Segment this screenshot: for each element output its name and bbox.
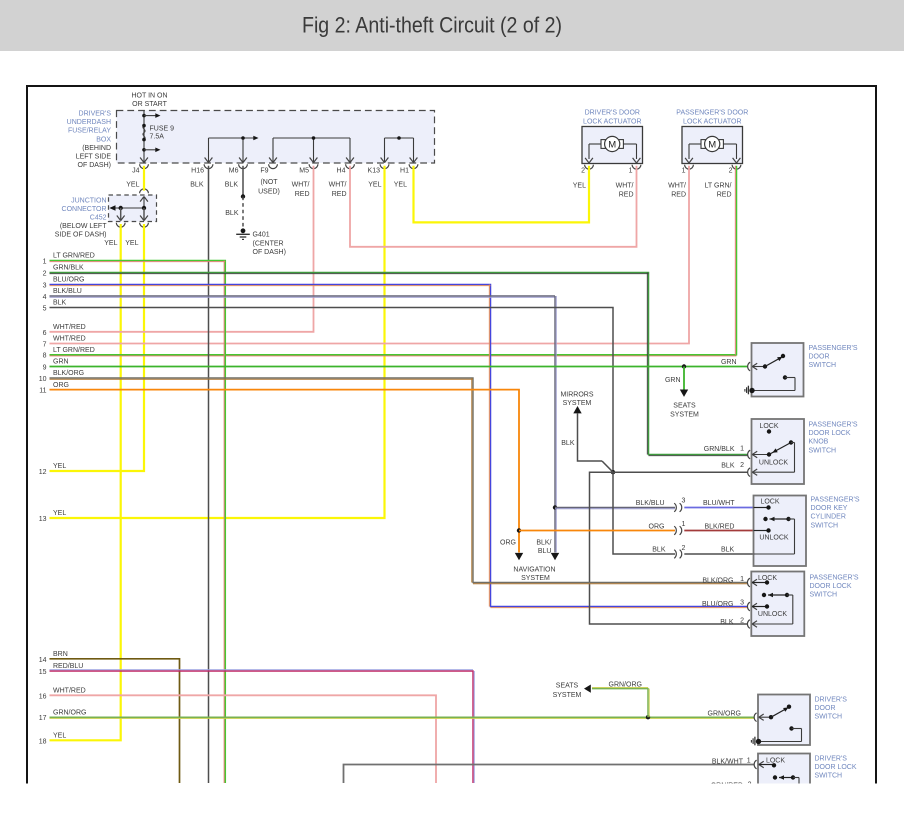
row 14 number and label BRN <box>39 651 68 664</box>
fuse box pin F9 connector <box>260 158 277 175</box>
svg-text:RED: RED <box>717 192 732 199</box>
wire WHT/RED M5 to row 6 <box>50 166 314 332</box>
svg-text:FUSE 9: FUSE 9 <box>150 126 175 133</box>
wire YEL K13 to row 13 <box>50 166 385 518</box>
svg-text:DOOR: DOOR <box>815 705 836 712</box>
svg-text:BLK: BLK <box>225 210 239 217</box>
svg-text:DRIVER'S: DRIVER'S <box>815 755 848 762</box>
svg-text:BLK: BLK <box>721 547 735 554</box>
svg-text:BLU: BLU <box>538 548 552 555</box>
BLK/BLU pin 3 labels <box>636 500 736 507</box>
pin H16 wire label BLK <box>190 182 204 189</box>
svg-text:BLK/: BLK/ <box>536 540 551 547</box>
passenger's door switch label <box>809 345 858 369</box>
BLU/ORG pin 3 label <box>702 600 744 609</box>
svg-text:OF DASH): OF DASH) <box>78 162 111 169</box>
svg-text:WHT/RED: WHT/RED <box>53 324 86 331</box>
fuse/relay box label <box>67 111 112 170</box>
pin F9 label (NOT USED) <box>258 179 280 196</box>
svg-text:WHT/: WHT/ <box>668 183 686 190</box>
wire BLK from M6 <box>242 166 244 197</box>
fuse box pin K13 connector <box>368 158 389 175</box>
svg-text:WHT/RED: WHT/RED <box>53 688 86 695</box>
driver actuator pin 1 connector <box>629 158 641 175</box>
driver's door lock switch box <box>758 754 810 813</box>
svg-text:FUSE/RELAY: FUSE/RELAY <box>68 128 111 135</box>
row 16 number and label WHT/RED <box>39 688 86 701</box>
svg-text:BLK/ORG: BLK/ORG <box>702 577 733 584</box>
driver lock switch label <box>815 755 857 779</box>
svg-text:(BELOW LEFT: (BELOW LEFT <box>60 223 107 230</box>
svg-text:LT GRN/: LT GRN/ <box>705 183 732 190</box>
junction connector C452 (dashed) <box>109 195 157 222</box>
mirrors system label <box>560 392 593 408</box>
svg-text:WHT/: WHT/ <box>616 183 634 190</box>
GRN/ORG pin label <box>708 711 741 718</box>
svg-text:GRN: GRN <box>53 359 69 366</box>
knob switch label <box>809 422 858 455</box>
row 9 number and label GRN <box>43 359 69 372</box>
svg-text:1: 1 <box>747 758 751 765</box>
key cylinder LOCK label <box>760 498 779 505</box>
svg-text:H1: H1 <box>400 168 409 175</box>
driver actuator internal wires <box>589 144 637 159</box>
svg-text:1: 1 <box>629 168 633 175</box>
junction dot BLK/BLU <box>553 505 557 509</box>
svg-text:1: 1 <box>740 576 744 583</box>
driver door switch contacts <box>759 705 802 742</box>
svg-text:CONNECTOR: CONNECTOR <box>62 206 107 213</box>
G401 label <box>253 232 286 257</box>
passenger's door lock knob switch box <box>752 419 805 484</box>
BLK/BLU label navigation branch <box>536 540 551 556</box>
driver lock switch LOCK contact <box>759 763 776 767</box>
svg-text:M5: M5 <box>299 168 309 175</box>
pin M6 wire label BLK <box>225 182 239 189</box>
svg-text:SWITCH: SWITCH <box>815 773 843 780</box>
svg-text:SEATS: SEATS <box>673 403 696 410</box>
ORG pin 1 labels <box>649 524 735 531</box>
svg-text:G401: G401 <box>253 232 270 239</box>
svg-text:2: 2 <box>729 168 733 175</box>
wire BLK H16 down <box>208 166 210 783</box>
svg-text:4: 4 <box>43 294 47 301</box>
fuse box pin H16 connector <box>191 158 213 175</box>
row 11 number and label ORG <box>39 382 69 395</box>
driver's door box <box>582 127 643 164</box>
svg-text:7: 7 <box>43 342 47 349</box>
C452 bottom connector left <box>116 216 125 228</box>
svg-text:J4: J4 <box>132 168 140 175</box>
svg-text:SYSTEM: SYSTEM <box>563 400 592 407</box>
knob switch UNLOCK label <box>759 460 789 467</box>
wire BLK/RED inline connector to key cylinder switch <box>684 530 753 532</box>
svg-text:GRN/ORG: GRN/ORG <box>708 711 741 718</box>
svg-text:ORG: ORG <box>53 382 69 389</box>
internal bus F9-M5-H4 <box>273 136 350 162</box>
svg-text:RED: RED <box>295 191 310 198</box>
inline connector pin 2 <box>674 545 685 558</box>
branch arrow right (bottom) <box>144 148 161 153</box>
svg-text:SWITCH: SWITCH <box>809 447 837 454</box>
driver door switch case ground <box>751 737 761 746</box>
wire LT GRN/RED row 8 to passenger actuator pin 2 <box>50 166 737 356</box>
driver lock switch pin 1 connector <box>754 760 764 769</box>
row 15 number and label RED/BLU <box>39 663 84 676</box>
wire GRN/BLK row 2 to knob switch pin 1 <box>50 273 748 456</box>
svg-text:LEFT SIDE: LEFT SIDE <box>76 154 112 161</box>
svg-text:YEL: YEL <box>573 183 586 190</box>
BLK/WHT pin 1 label <box>712 758 751 766</box>
svg-text:(BEHIND: (BEHIND <box>82 145 111 152</box>
wire WHT/RED row 7 to passenger actuator pin 1 <box>50 166 690 344</box>
arrow GRN to seats system <box>680 390 688 397</box>
svg-text:13: 13 <box>39 516 47 523</box>
svg-text:RED: RED <box>619 192 634 199</box>
svg-text:UNLOCK: UNLOCK <box>759 535 789 542</box>
fuse box pin H1 connector <box>400 158 418 175</box>
row 8 number and label LT GRN/RED <box>43 347 95 360</box>
passenger actuator wire labels <box>668 183 731 199</box>
inline connector pin 3 <box>674 498 685 512</box>
wire BLK/ORG row 10 to passenger lock switch pin 1 <box>50 378 748 584</box>
svg-text:YEL: YEL <box>368 182 381 189</box>
driver actuator pin 2 connector <box>581 158 593 175</box>
seats system label (driver) <box>553 683 582 700</box>
title bar <box>0 0 904 51</box>
svg-text:BLK: BLK <box>190 182 204 189</box>
svg-text:GRN: GRN <box>721 359 737 366</box>
row 5 number and label BLK <box>43 300 67 313</box>
svg-text:BLK: BLK <box>720 619 734 626</box>
svg-text:BOX: BOX <box>96 136 111 143</box>
svg-text:GRN/BLK: GRN/BLK <box>53 265 84 272</box>
svg-text:ORG: ORG <box>500 540 516 547</box>
svg-text:USED): USED) <box>258 189 280 196</box>
svg-text:15: 15 <box>39 669 47 676</box>
wire BLK/WHT from below to driver's door lock switch <box>344 765 755 784</box>
passenger lock switch label <box>810 575 859 599</box>
wire BLK junction down to key cylinder pin 2 <box>613 472 675 554</box>
row 7 number and label WHT/RED <box>43 336 86 349</box>
fuse F9 feed line J4 <box>143 111 145 163</box>
row 4 number and label BLK/BLU <box>43 288 82 301</box>
passenger's door label <box>676 110 748 126</box>
svg-text:SWITCH: SWITCH <box>811 522 839 529</box>
svg-text:11: 11 <box>39 388 46 395</box>
svg-text:UNDERDASH: UNDERDASH <box>67 119 111 126</box>
svg-text:SYSTEM: SYSTEM <box>553 692 582 699</box>
driver actuator wire labels <box>573 183 634 199</box>
svg-text:YEL: YEL <box>53 463 66 470</box>
driver lock switch moving contact <box>773 775 799 783</box>
arrow up to mirrors system <box>573 406 581 413</box>
svg-text:7.5A: 7.5A <box>150 133 165 140</box>
svg-text:GRN/ORG: GRN/ORG <box>609 682 642 689</box>
svg-text:DRIVER'S: DRIVER'S <box>79 111 112 118</box>
svg-text:RED/BLU: RED/BLU <box>53 663 83 670</box>
svg-text:PASSENGER'S: PASSENGER'S <box>809 422 858 429</box>
wire LT GRN/RED row 1 down <box>50 261 226 784</box>
lock switch LOCK label <box>758 575 777 582</box>
key cylinder LOCK contact <box>754 505 771 509</box>
wire YEL H1 to driver actuator pin 2 <box>414 166 590 223</box>
svg-text:WHT/RED: WHT/RED <box>53 336 86 343</box>
wire BLK row 5 to junction <box>50 308 614 473</box>
svg-text:SIDE OF DASH): SIDE OF DASH) <box>55 232 107 239</box>
svg-text:2: 2 <box>43 271 47 278</box>
C452 label <box>55 197 107 238</box>
svg-text:6: 6 <box>43 330 47 337</box>
knob switch pin 2 connector <box>748 468 758 477</box>
wire YEL C452 right to row 12 <box>50 224 145 471</box>
svg-text:GRN/RED: GRN/RED <box>711 783 743 790</box>
fuse 9 label <box>150 126 175 141</box>
svg-text:BLU/WHT: BLU/WHT <box>703 500 735 507</box>
pin K13 wire label YEL <box>368 182 381 189</box>
row 3 number and label BLU/ORG <box>43 277 85 290</box>
wire GRN/ORG row 17 to driver's door switch <box>50 717 755 718</box>
passenger's door switch box <box>752 343 804 397</box>
svg-text:SYSTEM: SYSTEM <box>521 575 550 582</box>
svg-text:1: 1 <box>682 168 686 175</box>
junction dot GRN seats branch <box>682 364 686 368</box>
svg-text:M: M <box>708 139 716 150</box>
driver's underdash fuse/relay box (dashed) <box>117 111 435 164</box>
svg-text:16: 16 <box>39 693 47 700</box>
driver door switch pin connector <box>754 713 764 722</box>
passenger actuator pin 1 connector <box>682 158 694 175</box>
fuse box pin H4 connector <box>337 158 355 175</box>
GRN/BLK pin 1 label <box>704 446 744 454</box>
GRN/ORG branch label <box>609 682 642 689</box>
svg-text:17: 17 <box>39 715 47 722</box>
knob switch moving contact <box>752 440 794 472</box>
svg-text:BLK/RED: BLK/RED <box>705 524 735 531</box>
passenger door switch case ground <box>745 386 755 395</box>
wire YEL J4 to C452 <box>143 166 145 191</box>
passenger actuator internal wires <box>689 144 737 159</box>
svg-text:OR START: OR START <box>132 101 167 108</box>
svg-text:YEL: YEL <box>125 240 138 247</box>
key cylinder UNLOCK label <box>759 535 789 542</box>
svg-text:YEL: YEL <box>53 510 66 517</box>
passenger's door key cylinder switch box <box>754 496 807 567</box>
internal bus H16-M6 <box>209 136 259 163</box>
GRN/RED pin 2 label (clipped) <box>711 782 752 790</box>
passenger door switch contacts <box>752 354 795 391</box>
svg-text:2: 2 <box>748 782 752 789</box>
svg-text:BLK/WHT: BLK/WHT <box>712 759 744 766</box>
passenger's door lock switch box <box>751 572 804 637</box>
svg-text:9: 9 <box>43 365 47 372</box>
svg-text:DOOR KEY: DOOR KEY <box>811 505 848 512</box>
fuse box pin J4 connector <box>132 158 148 175</box>
junction dot below fuse <box>142 148 146 152</box>
svg-text:LT GRN/RED: LT GRN/RED <box>53 347 95 354</box>
svg-text:PASSENGER'S: PASSENGER'S <box>809 345 858 352</box>
svg-text:H4: H4 <box>337 168 346 175</box>
wire ORG branch to inline connector <box>519 530 675 532</box>
svg-text:WHT/: WHT/ <box>292 182 310 189</box>
svg-text:YEL: YEL <box>53 733 66 740</box>
svg-text:18: 18 <box>39 738 47 745</box>
lock switch pin 2 connector <box>747 620 757 629</box>
svg-text:5: 5 <box>43 306 47 313</box>
dashed BLK wire to G401 <box>242 197 244 230</box>
svg-text:DOOR LOCK: DOOR LOCK <box>809 430 851 437</box>
GRN pin label <box>721 359 737 366</box>
svg-text:(CENTER: (CENTER <box>253 241 284 248</box>
svg-text:NAVIGATION: NAVIGATION <box>513 566 555 573</box>
knob switch LOCK label and contact <box>759 423 778 434</box>
svg-text:BLU/ORG: BLU/ORG <box>53 277 85 284</box>
wire BLK mirrors system branch <box>578 414 614 473</box>
svg-text:8: 8 <box>43 353 47 360</box>
row 2 number and label GRN/BLK <box>43 265 84 278</box>
arrow ORG to navigation system <box>515 553 523 560</box>
C452 internal bus <box>109 197 146 220</box>
svg-text:MIRRORS: MIRRORS <box>560 392 593 399</box>
lock switch pin 1 connector <box>747 578 757 587</box>
arrow left to seats system (driver) <box>584 685 591 693</box>
svg-text:DRIVER'S: DRIVER'S <box>815 697 848 704</box>
passenger door switch pin connector <box>748 362 758 371</box>
wire BLK junction to knob switch pin 2 <box>613 471 748 473</box>
navigation system label <box>513 566 555 582</box>
driver's door switch label <box>815 697 848 721</box>
knob switch pin 1 connector <box>748 450 758 459</box>
key cylinder UNLOCK contact <box>754 528 771 532</box>
svg-text:YEL: YEL <box>104 240 117 247</box>
row 6 number and label WHT/RED <box>43 324 86 337</box>
svg-text:3: 3 <box>740 600 744 607</box>
BLK pin 2 label <box>720 618 744 627</box>
svg-text:CYLINDER: CYLINDER <box>811 514 846 521</box>
svg-text:3: 3 <box>43 283 47 290</box>
svg-text:2: 2 <box>681 545 685 552</box>
wire BLU/ORG row 3 to passenger lock switch pin 3 <box>50 285 748 608</box>
wire BLK/BLU branch to inline connector <box>555 508 675 509</box>
svg-text:H16: H16 <box>191 168 204 175</box>
key cylinder switch label <box>811 497 860 530</box>
fuse box pin M6 connector <box>229 158 248 175</box>
wire WHT/RED row 16 down <box>50 695 437 783</box>
BLK pin 2 labels <box>652 547 734 554</box>
svg-text:LOCK ACTUATOR: LOCK ACTUATOR <box>683 118 741 125</box>
row 13 number and label YEL <box>39 510 67 523</box>
svg-text:LT GRN/RED: LT GRN/RED <box>53 253 95 260</box>
junction dot ORG <box>517 528 521 532</box>
C452 bottom connector right <box>140 216 149 228</box>
svg-text:2: 2 <box>581 168 585 175</box>
wire BLK junction to passenger lock switch pin 2 <box>590 472 748 624</box>
BLK pin 2 label <box>721 462 744 470</box>
svg-text:RED: RED <box>671 192 686 199</box>
row 17 number and label GRN/ORG <box>39 709 87 722</box>
svg-text:C452: C452 <box>90 215 107 222</box>
svg-text:RED: RED <box>332 191 347 198</box>
junction dot GRN/ORG seats branch <box>646 715 650 719</box>
svg-text:BLK/ORG: BLK/ORG <box>53 370 84 377</box>
C452 YEL output labels <box>104 240 138 247</box>
key cylinder moving contact <box>754 517 795 554</box>
svg-text:SYSTEM: SYSTEM <box>670 412 699 419</box>
svg-text:2: 2 <box>740 462 744 469</box>
svg-text:ORG: ORG <box>649 524 665 531</box>
branch arrow right (top) <box>144 113 161 118</box>
svg-text:GRN/BLK: GRN/BLK <box>704 446 735 453</box>
ground G401 <box>236 228 250 239</box>
svg-text:10: 10 <box>39 376 47 383</box>
svg-text:BLK: BLK <box>225 182 239 189</box>
wire BLK inline connector to key cylinder <box>684 553 753 555</box>
svg-text:DOOR LOCK: DOOR LOCK <box>810 583 852 590</box>
row 18 number and label YEL <box>39 733 67 746</box>
passenger actuator pin 2 connector <box>729 158 741 175</box>
svg-text:UNLOCK: UNLOCK <box>758 611 788 618</box>
svg-text:14: 14 <box>39 657 47 664</box>
arrow BLK/BLU to navigation system <box>551 553 559 560</box>
svg-text:2: 2 <box>740 618 744 625</box>
passenger's door motor M <box>701 136 723 151</box>
svg-text:K13: K13 <box>368 168 381 175</box>
svg-text:SWITCH: SWITCH <box>815 714 843 721</box>
svg-text:BRN: BRN <box>53 651 68 658</box>
inline connector pin 1 <box>674 521 685 535</box>
GRN branch label <box>665 377 681 384</box>
lock switch UNLOCK contact <box>752 604 769 608</box>
svg-text:BLK/BLU: BLK/BLU <box>53 288 82 295</box>
lock switch LOCK contact <box>752 580 769 584</box>
pin H1 wire label YEL <box>394 182 407 189</box>
svg-text:LOCK: LOCK <box>766 758 785 765</box>
svg-text:Fig 2: Anti-theft Circuit (2 o: Fig 2: Anti-theft Circuit (2 of 2) <box>302 13 562 38</box>
svg-text:HOT IN ON: HOT IN ON <box>131 93 167 100</box>
svg-text:OF DASH): OF DASH) <box>253 249 286 256</box>
wire GRN row 9 to passenger door switch <box>50 366 748 368</box>
svg-text:SWITCH: SWITCH <box>809 362 837 369</box>
svg-text:PASSENGER'S: PASSENGER'S <box>810 575 859 582</box>
ORG label navigation branch <box>500 540 516 547</box>
wire RED/BLU row 15 down <box>50 670 475 783</box>
svg-text:DOOR LOCK: DOOR LOCK <box>815 764 857 771</box>
driver's door motor M <box>601 136 623 151</box>
junction dot on J4 feed <box>142 114 146 118</box>
pin M5 wire label WHT/RED <box>292 182 310 199</box>
driver's door switch box <box>758 695 810 746</box>
lock switch pin 3 connector <box>747 602 757 611</box>
svg-text:UNLOCK: UNLOCK <box>759 460 789 467</box>
seats system label (passenger) <box>670 403 699 419</box>
svg-text:SEATS: SEATS <box>556 683 579 690</box>
svg-text:F9: F9 <box>260 168 268 175</box>
fuse 9 symbol <box>142 124 146 142</box>
wire GRN/ORG branch to seats system <box>592 687 649 717</box>
wire WHT/RED H4 to driver actuator pin 1 <box>350 166 637 247</box>
svg-text:BLK: BLK <box>561 440 575 447</box>
svg-text:LOCK: LOCK <box>760 498 779 505</box>
svg-text:KNOB: KNOB <box>809 439 829 446</box>
svg-text:GRN/ORG: GRN/ORG <box>53 709 86 716</box>
wire GRN branch to seats system <box>683 367 685 390</box>
lock label driver <box>766 758 785 765</box>
svg-text:12: 12 <box>39 469 47 476</box>
wire BLU/WHT inline connector to key cylinder switch <box>684 507 753 509</box>
svg-text:YEL: YEL <box>394 182 407 189</box>
BLK/ORG pin 1 label <box>702 576 744 584</box>
svg-text:LOCK: LOCK <box>759 423 778 430</box>
